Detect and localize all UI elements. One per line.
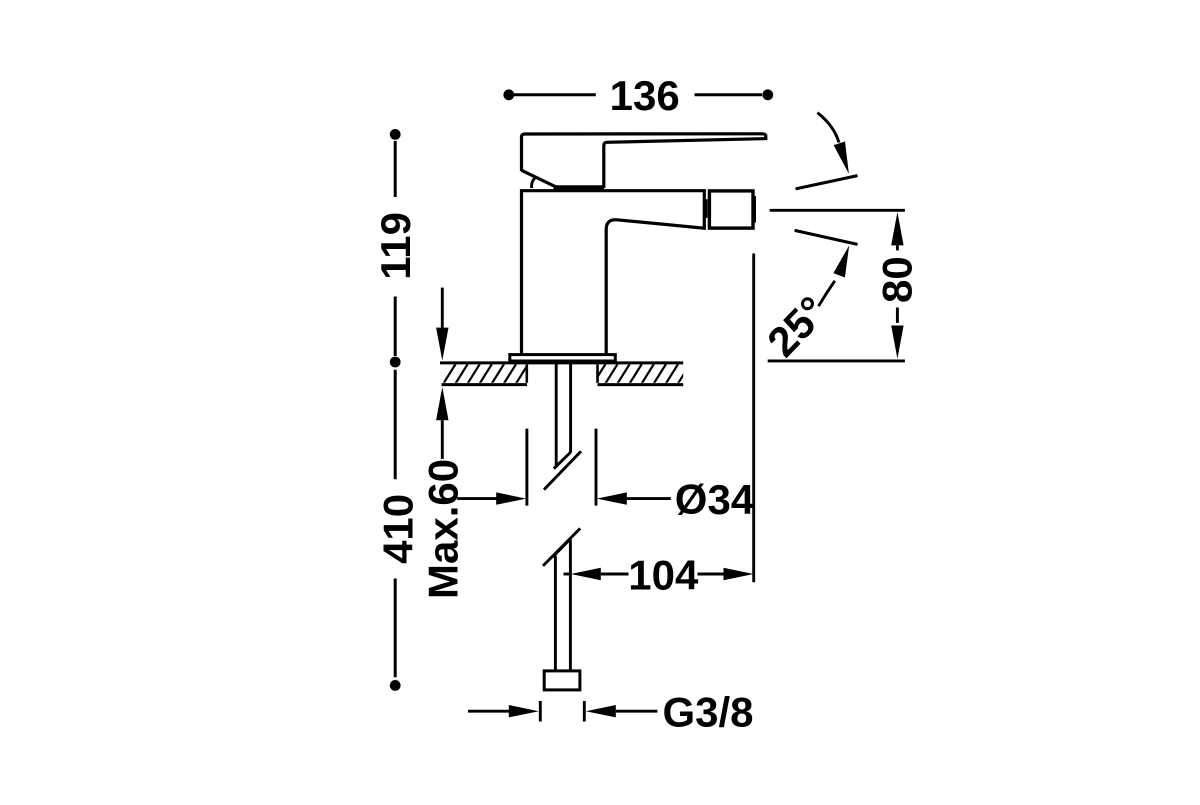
deck underside line left <box>442 383 528 386</box>
pipe break slash lower <box>543 528 580 566</box>
dim 136: right line <box>695 93 763 96</box>
dim 80: up arrow <box>891 212 903 250</box>
dim G3/8: right tick <box>583 701 586 722</box>
aerator nozzle <box>709 191 753 228</box>
outlet extension line <box>752 254 755 583</box>
faucet lever bottom diagonal edge <box>522 170 557 187</box>
cartridge dome arc under lever <box>532 178 536 188</box>
dim G3/8: left arrow <box>468 705 539 717</box>
deck hatched section left <box>443 363 541 384</box>
dim 136: left dot <box>503 89 514 100</box>
aerator outlet rim <box>754 196 756 223</box>
dim 136: left line <box>514 93 596 96</box>
dim 104: left arrow <box>564 568 629 580</box>
dim 410: lower line <box>394 579 397 678</box>
dim O34: right arrow <box>597 492 671 504</box>
dim 119: lower line <box>394 297 397 357</box>
dim 410: bottom dot <box>390 680 401 691</box>
dim G3/8: right arrow <box>586 705 658 717</box>
spout angle line <box>795 230 858 244</box>
faucet lever thick underside segment <box>554 185 604 189</box>
dim 119: top dot <box>390 129 401 140</box>
svg-text:Max.60: Max.60 <box>420 459 467 599</box>
dim Max.60: upper arrow <box>436 288 448 361</box>
G3/8 hose fitting <box>544 671 580 690</box>
dim Max.60: lower arrow <box>436 387 448 459</box>
svg-text:104: 104 <box>628 551 699 598</box>
svg-text:Ø34: Ø34 <box>675 476 755 523</box>
svg-text:G3/8: G3/8 <box>662 688 753 735</box>
base plate flange <box>510 355 616 361</box>
dim O34: right extension tick <box>595 429 598 506</box>
supply pipe lower segment <box>555 540 570 671</box>
deck surface line <box>440 361 683 364</box>
pipe break cut upper <box>554 452 571 469</box>
dim 104: right arrow <box>698 568 754 580</box>
dim 119: upper line <box>394 141 397 197</box>
dim 410: upper line <box>394 370 397 480</box>
dim 80: outlet reference line <box>770 209 905 212</box>
dim 80: deck reference line <box>768 359 905 362</box>
faucet lever handle outline <box>522 134 766 188</box>
aerator joint line <box>705 199 708 218</box>
dim 80: down arrow <box>891 308 903 359</box>
pipe break cut lower <box>553 539 571 557</box>
faucet body and spout outline <box>522 191 705 354</box>
pipe break slash upper <box>544 451 581 489</box>
deck underside line right <box>598 383 684 386</box>
dim O34: left arrow <box>457 492 526 504</box>
dim 136: right dot <box>762 89 773 100</box>
lever raised position line <box>796 176 858 189</box>
supply pipe upper segment <box>556 362 570 467</box>
lever swing arc upper <box>817 113 849 174</box>
dim G3/8: left tick <box>539 701 542 722</box>
angle 25 arc arrow <box>819 245 850 306</box>
dim O34: left extension tick <box>525 429 528 506</box>
svg-text:80: 80 <box>873 256 920 303</box>
deck hatched section right <box>593 363 703 384</box>
dim 119/410: middle dot <box>390 357 401 368</box>
svg-text:136: 136 <box>610 72 680 119</box>
svg-text:410: 410 <box>375 494 422 564</box>
svg-text:119: 119 <box>372 212 419 280</box>
